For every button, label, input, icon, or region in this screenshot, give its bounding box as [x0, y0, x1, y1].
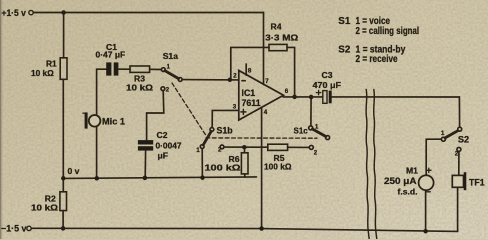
pin 2 label S2	[455, 151, 459, 158]
pin 8 label IC1	[248, 67, 252, 74]
microphone Mic1	[83, 112, 100, 128]
svg-text:2 = calling signal: 2 = calling signal	[356, 26, 420, 37]
value label R1	[31, 58, 57, 78]
meter M1 minus mark	[426, 191, 430, 193]
svg-text:1: 1	[196, 147, 200, 154]
pin 8 stub IC1	[245, 64, 247, 75]
pin 1 label S1c	[315, 124, 319, 130]
wire S1b pole to 0v	[201, 149, 203, 178]
junction pin4 rail	[259, 226, 264, 231]
svg-text:10 kΩ: 10 kΩ	[31, 203, 58, 213]
wire C3 to S2	[332, 97, 460, 127]
label S1b	[217, 126, 234, 136]
junction R2 bottom rail	[61, 226, 66, 231]
junction 0v / R1-R2	[61, 176, 66, 181]
switch S1c	[309, 126, 330, 149]
value label M1	[384, 166, 418, 197]
wire S1b contact2 to R5	[224, 146, 268, 148]
capacitor C3 plus mark	[316, 90, 320, 94]
pin 1 label S1b	[196, 147, 200, 154]
svg-text:+1·5 v: +1·5 v	[2, 8, 27, 18]
wire S2 contact1 to M1	[426, 139, 441, 175]
value label C3	[313, 70, 342, 90]
svg-text:3·3 MΩ: 3·3 MΩ	[265, 33, 298, 43]
switch S1a	[161, 68, 182, 91]
label S1a	[163, 51, 179, 61]
junction M1 rail	[423, 229, 428, 234]
svg-text:2: 2	[233, 73, 237, 80]
wire R5 to S1c contact2	[288, 146, 310, 148]
capacitor C1	[106, 62, 118, 75]
value label R2	[31, 194, 58, 213]
svg-text:Mic 1: Mic 1	[102, 116, 125, 126]
svg-text:4: 4	[264, 109, 268, 116]
legend S1 positions	[338, 16, 419, 37]
pin 7 label IC1	[265, 78, 269, 85]
svg-text:S1: S1	[338, 16, 351, 27]
op-amp plus input mark	[241, 109, 246, 114]
resistor R3	[130, 66, 150, 72]
resistor R5	[268, 144, 288, 150]
svg-text:f.s.d.: f.s.d.	[398, 186, 418, 196]
pin 2 label IC1	[233, 73, 237, 80]
svg-text:7: 7	[265, 78, 269, 85]
svg-text:−1·5 v: −1·5 v	[1, 224, 27, 234]
svg-text:100 kΩ: 100 kΩ	[205, 163, 241, 173]
svg-text:S2: S2	[338, 45, 351, 56]
value label R4	[265, 22, 298, 43]
svg-text:0·0047: 0·0047	[156, 140, 182, 150]
svg-text:1: 1	[441, 130, 445, 137]
svg-text:10 kΩ: 10 kΩ	[126, 83, 153, 93]
junction S1b 0v	[200, 175, 205, 180]
label S1c	[294, 125, 308, 135]
svg-text:0 v: 0 v	[68, 166, 80, 176]
label IC1 7611	[242, 88, 261, 108]
pin 3 label IC1	[233, 104, 237, 111]
capacitor C3	[323, 91, 332, 104]
switch S1b	[200, 128, 224, 149]
value label R6	[205, 154, 241, 173]
svg-text:100 kΩ: 100 kΩ	[264, 162, 292, 172]
resistor R4	[269, 44, 287, 50]
mechanical link S1b-S1c dashed	[206, 137, 317, 139]
svg-text:S1a: S1a	[163, 51, 179, 61]
wire S1a pole to op-amp pin2	[182, 79, 239, 81]
wire R1 top	[63, 13, 65, 58]
wire R2 bottom	[62, 211, 64, 229]
op-amp IC1 7611	[239, 71, 284, 121]
label TF1	[469, 177, 485, 187]
svg-text:8: 8	[248, 67, 252, 74]
wire mic column	[97, 69, 107, 178]
junction C2 0v	[143, 176, 148, 181]
wire pin7 drop from +1.5v rail to op-amp	[263, 13, 265, 85]
junction pin2 feedback	[228, 78, 233, 83]
svg-text:R1: R1	[46, 58, 57, 68]
svg-text:7611: 7611	[242, 98, 261, 108]
svg-text:3: 3	[233, 104, 237, 111]
svg-text:S1c: S1c	[294, 125, 308, 135]
junction R1 top	[61, 10, 66, 15]
svg-text:IC1: IC1	[242, 88, 256, 98]
wire S1b top to op-amp pin3	[212, 110, 239, 127]
wire S1c contact1 up to output	[310, 97, 312, 126]
svg-text:2: 2	[218, 147, 222, 154]
wire M1 bottom	[425, 190, 427, 231]
svg-text:μF: μF	[158, 150, 169, 160]
wire op-amp output	[283, 96, 323, 98]
svg-text:6: 6	[285, 88, 289, 95]
wire R1 bottom to 0v rail	[62, 79, 64, 192]
wire feedback right	[287, 47, 295, 97]
resistor R2	[60, 192, 67, 211]
svg-text:250 μA: 250 μA	[384, 176, 417, 186]
node -1.5v label	[1, 224, 27, 234]
legend S2 positions	[338, 45, 405, 65]
cable break wavy lines	[366, 90, 377, 240]
wire C1 to R3	[118, 68, 130, 70]
svg-text:S1b: S1b	[217, 126, 234, 136]
svg-text:C2: C2	[157, 130, 168, 140]
wire R3 to S1a	[150, 68, 162, 70]
pin 2 label S1a	[166, 88, 170, 94]
node +1.5v terminal	[29, 10, 33, 14]
svg-text:470 μF: 470 μF	[313, 80, 342, 90]
meter M1	[419, 175, 434, 190]
value label C2	[156, 130, 182, 160]
node 0v label	[68, 166, 80, 176]
junction mic 0v	[95, 176, 100, 181]
svg-text:S2: S2	[458, 134, 469, 144]
op-amp minus input mark	[242, 80, 245, 82]
wire 0v rail	[63, 177, 256, 179]
pin 1 label S1a	[167, 64, 171, 70]
wire feedback left	[230, 47, 269, 80]
node +1.5v label	[2, 8, 27, 18]
meter M1 plus mark	[427, 168, 431, 172]
label S2 switch	[458, 134, 469, 144]
wire S1a contact2 to C2	[147, 91, 164, 140]
node -1.5v terminal	[27, 226, 31, 230]
wire S2 contact2 to TF1	[458, 152, 460, 176]
switch S2	[441, 127, 461, 151]
pin 1 label S2	[441, 130, 445, 137]
svg-text:M1: M1	[406, 166, 418, 176]
mechanical link S1a-S1b dashed	[172, 83, 206, 135]
junction feedback output	[292, 95, 297, 100]
wire C2 bottom	[144, 151, 146, 178]
value label C1	[96, 42, 126, 60]
resistor R6	[241, 147, 248, 177]
junction R6 tap	[242, 145, 247, 150]
wire pin4 to -1.5v rail	[261, 107, 263, 228]
svg-text:10 kΩ: 10 kΩ	[31, 68, 54, 78]
value label R5	[264, 153, 292, 172]
value label R3	[126, 74, 153, 93]
pin 2 label S1c	[314, 151, 318, 157]
svg-text:R4: R4	[271, 22, 282, 32]
svg-text:C3: C3	[322, 70, 333, 80]
svg-text:TF1: TF1	[469, 177, 485, 187]
wire -1.5v bottom rail	[31, 228, 457, 231]
transducer TF1	[452, 172, 466, 190]
pin 4 label IC1	[264, 109, 268, 116]
wire TF1 bottom	[457, 187, 459, 231]
svg-text:2 = receive: 2 = receive	[356, 54, 399, 65]
capacitor C2	[138, 140, 153, 150]
pin 2 label S1b	[218, 147, 222, 154]
value label Mic1	[102, 116, 125, 126]
junction output S1c	[309, 95, 314, 100]
pin 6 label IC1	[285, 88, 289, 95]
wire +1.5v top rail	[33, 12, 263, 14]
svg-text:0·47 μF: 0·47 μF	[96, 50, 126, 60]
resistor R1	[60, 58, 67, 80]
